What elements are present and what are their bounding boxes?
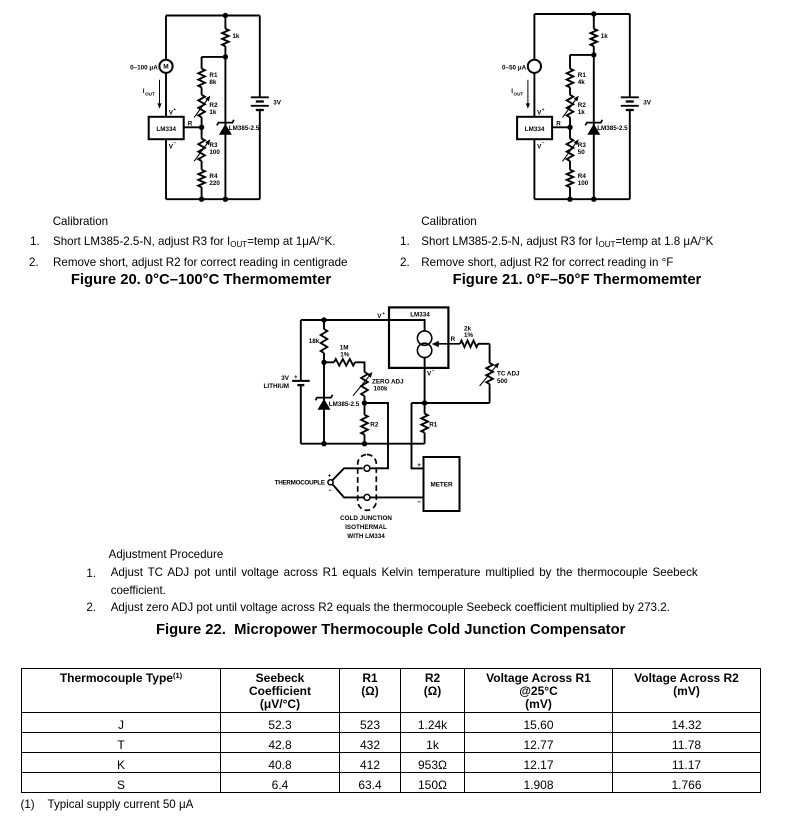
node R2 / bottom <box>362 441 367 446</box>
label meter range <box>502 64 527 71</box>
zener LM385-2.5 <box>217 120 260 135</box>
svg-text:3V: 3V <box>281 375 290 382</box>
svg-text:TC ADJ: TC ADJ <box>497 370 520 377</box>
resistor 1k top <box>222 16 240 57</box>
wire top rail fig21 <box>534 13 629 15</box>
wire junction to divider top <box>570 54 594 56</box>
svg-text:LM385-2.5: LM385-2.5 <box>597 125 628 132</box>
trimmer ZERO ADJ 100k <box>353 372 404 403</box>
svg-text:+: + <box>382 312 385 317</box>
meter M 0–50 μA <box>528 60 541 73</box>
wire LM334 to bottom rail <box>533 139 535 199</box>
node ZERO ADJ / R2 <box>362 400 367 405</box>
label meter plus <box>417 462 421 469</box>
ic LM334 fig22 <box>389 307 448 368</box>
svg-text:R2: R2 <box>578 102 587 109</box>
svg-text:+: + <box>173 108 176 113</box>
svg-text:OUT: OUT <box>145 91 155 96</box>
svg-text:+: + <box>417 462 421 469</box>
label cold junction caption <box>340 515 392 540</box>
meter M 0–100 μA <box>159 60 172 73</box>
resistor 1M 1% <box>324 345 365 372</box>
wire fig22 top rail V+ <box>301 320 425 331</box>
adjustment procedure <box>109 548 224 561</box>
svg-text:ZERO ADJ: ZERO ADJ <box>372 379 404 386</box>
calibration text fig21 <box>421 215 476 228</box>
resistor R4 220 <box>198 170 220 200</box>
svg-text:+: + <box>542 108 545 113</box>
annotation IOUT arrow <box>511 80 530 109</box>
svg-text:220: 220 <box>209 180 220 187</box>
zener LM385-2.5 <box>585 120 628 135</box>
label THERMOCOUPLE <box>275 480 325 487</box>
svg-text:R: R <box>451 336 456 343</box>
wire meter minus to cold junction bottom <box>370 496 423 498</box>
meter box <box>424 457 460 511</box>
wire LM334 R pin to node <box>552 126 570 128</box>
wire LM334 to bottom rail <box>165 139 167 199</box>
node divider / bottom rail <box>567 197 572 202</box>
wire LM334 R pin to node <box>184 126 202 128</box>
node top rail / 18k <box>321 317 326 322</box>
svg-text:R: R <box>188 120 193 127</box>
svg-text:1k: 1k <box>232 33 240 40</box>
resistor 1k top <box>591 14 609 55</box>
node 1k / divider <box>223 54 228 59</box>
svg-text:−: − <box>432 369 435 374</box>
svg-text:0–50 μA: 0–50 μA <box>502 64 527 71</box>
R pin arrow into current source <box>432 336 460 347</box>
cold junction contact top <box>364 465 370 471</box>
wire zener branch <box>224 57 226 199</box>
svg-text:0–100 μA: 0–100 μA <box>130 64 158 71</box>
svg-text:THERMOCOUPLE: THERMOCOUPLE <box>275 480 325 487</box>
svg-text:−: − <box>417 499 421 506</box>
svg-text:M: M <box>163 64 168 71</box>
svg-text:OUT: OUT <box>514 91 524 96</box>
node 1k / divider <box>591 52 596 57</box>
svg-text:100k: 100k <box>374 386 389 393</box>
resistor R1 4k <box>567 55 587 95</box>
svg-text:R1: R1 <box>429 421 438 428</box>
label V- fig22 <box>427 369 435 377</box>
wire top rail fig20 <box>166 15 260 17</box>
resistor R1 fig22 <box>421 403 437 444</box>
svg-text:COLD JUNCTION: COLD JUNCTION <box>340 515 392 522</box>
svg-text:R2: R2 <box>209 102 218 109</box>
svg-text:18k: 18k <box>309 338 320 345</box>
caption figure 21 <box>427 272 727 288</box>
svg-text:1k: 1k <box>578 109 586 116</box>
svg-text:R3: R3 <box>578 142 587 149</box>
thermocouple terminal <box>328 474 334 494</box>
svg-text:R1: R1 <box>578 72 587 79</box>
trimmer R3 100 <box>194 127 220 169</box>
wire left branch upper <box>165 16 167 60</box>
wire thermocouple minus lead <box>333 484 365 497</box>
wire R2 node to cold junction top <box>365 403 389 468</box>
node R <box>567 125 572 130</box>
wire bottom rail <box>166 198 260 200</box>
trimmer R3 50 <box>563 127 587 169</box>
svg-text:LM334: LM334 <box>525 126 545 133</box>
svg-text:ISOTHERMAL: ISOTHERMAL <box>345 524 387 531</box>
annotation IOUT arrow <box>143 80 162 109</box>
svg-text:−: − <box>328 488 332 494</box>
svg-text:R2: R2 <box>370 422 379 429</box>
svg-text:1k: 1k <box>601 33 609 40</box>
battery 3V lithium <box>264 320 310 444</box>
wire bottom rail <box>534 198 629 200</box>
resistor R1 8k <box>198 57 218 95</box>
trimmer R2 1k <box>194 95 218 128</box>
svg-text:−: − <box>173 142 176 147</box>
ic LM334 <box>149 117 184 139</box>
wire meter to LM334 V+ <box>533 73 535 117</box>
battery 3V <box>621 14 652 199</box>
label V+ pin <box>537 108 545 116</box>
label V- pin <box>537 142 545 151</box>
svg-text:3V: 3V <box>643 99 652 106</box>
svg-text:8k: 8k <box>209 79 217 86</box>
svg-text:100: 100 <box>578 180 589 187</box>
svg-text:R4: R4 <box>209 173 218 180</box>
svg-text:−: − <box>542 142 545 147</box>
svg-text:R1: R1 <box>209 72 218 79</box>
node R <box>199 125 204 130</box>
svg-text:+: + <box>328 474 332 480</box>
resistor R4 100 <box>567 170 589 200</box>
wire left branch upper <box>533 14 535 60</box>
svg-text:LM385-2.5: LM385-2.5 <box>329 401 360 408</box>
label R pin <box>556 120 561 127</box>
table thermocouple data <box>21 668 761 793</box>
node V- / R1 <box>422 400 427 405</box>
node zener / bottom <box>321 441 326 446</box>
svg-text:METER: METER <box>430 482 452 489</box>
node top rail / 1k <box>223 13 228 18</box>
svg-text:1k: 1k <box>209 109 217 116</box>
svg-text:R4: R4 <box>578 173 587 180</box>
label V- pin <box>169 142 177 151</box>
wire thermocouple plus lead <box>332 468 363 480</box>
label R pin <box>188 120 193 127</box>
wire TC ADJ to V- node <box>412 402 490 404</box>
wire V- from current source <box>424 358 426 403</box>
svg-text:R: R <box>556 120 561 127</box>
svg-text:LM334: LM334 <box>410 312 430 319</box>
wire meter to LM334 V+ <box>165 73 167 117</box>
wire junction to divider top <box>202 56 226 58</box>
ic LM334 <box>517 117 552 139</box>
label meter minus <box>417 499 421 506</box>
wire fig22 bottom rail <box>301 443 425 445</box>
label V+ fig22 <box>377 312 385 320</box>
wire zener branch <box>593 55 595 199</box>
caption figure 20 <box>51 272 351 288</box>
svg-text:LITHIUM: LITHIUM <box>264 383 290 390</box>
resistor 2k 1% <box>460 326 490 348</box>
svg-text:R3: R3 <box>209 142 218 149</box>
label meter range <box>130 64 158 71</box>
svg-text:LM385-2.5: LM385-2.5 <box>229 125 260 132</box>
svg-text:4k: 4k <box>578 79 586 86</box>
node top rail / 1k <box>591 11 596 16</box>
svg-text:LM334: LM334 <box>156 126 176 133</box>
cold junction dashed isothermal boundary <box>358 455 377 511</box>
svg-text:100: 100 <box>209 149 220 156</box>
battery 3V <box>251 16 282 200</box>
trimmer TC ADJ 500 <box>480 344 520 403</box>
node 18k / 1M / zener <box>321 360 326 365</box>
svg-text:+: + <box>294 375 298 381</box>
zener LM385-2.5 fig22 <box>316 362 360 443</box>
cold junction contact bottom <box>364 494 370 500</box>
wire meter plus branch <box>412 403 424 468</box>
svg-text:500: 500 <box>497 378 508 385</box>
node divider / bottom rail <box>199 197 204 202</box>
trimmer R2 1k <box>563 95 587 128</box>
resistor 18k <box>309 320 328 362</box>
svg-text:1%: 1% <box>340 351 350 358</box>
current source circles <box>417 331 431 358</box>
footnote <box>21 798 35 811</box>
node zener / bottom rail <box>223 197 228 202</box>
node zener / bottom rail <box>591 197 596 202</box>
svg-text:3V: 3V <box>273 99 282 106</box>
calibration text fig20 <box>53 215 108 228</box>
caption figure 22 <box>141 622 641 638</box>
svg-text:50: 50 <box>578 149 586 156</box>
svg-text:WITH LM334: WITH LM334 <box>347 533 385 540</box>
svg-text:1%: 1% <box>464 332 474 339</box>
label V+ pin <box>169 108 177 116</box>
resistor R2 fig22 <box>361 403 379 444</box>
